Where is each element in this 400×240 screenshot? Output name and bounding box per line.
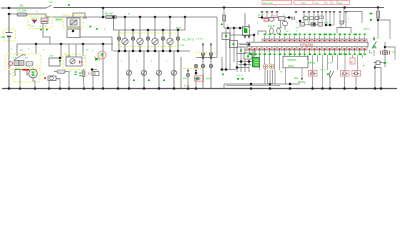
node 133,51	[132, 50, 135, 53]
module box U2 under IC	[285, 55, 305, 56]
cap C5 ellipse vertical	[270, 28, 274, 34]
node 92,69	[91, 68, 94, 71]
grid y28	[224, 27, 246, 29]
node 163,30	[162, 29, 165, 32]
node 61,44	[60, 43, 63, 46]
transistor Q1	[126, 51, 131, 88]
cap C4 ellipse	[303, 16, 308, 20]
resistor R5 vertical	[82, 71, 85, 77]
red bar motor	[23, 69, 30, 71]
connector X2	[92, 72, 99, 76]
wire top bus left	[1, 7, 46, 9]
contact block A	[14, 61, 19, 66]
node 148,51	[147, 50, 150, 53]
node 185,17	[184, 16, 187, 19]
node 344,88	[343, 87, 346, 90]
lamp red H1	[9, 62, 13, 66]
wire IC left entry	[240, 43, 247, 45]
svg-text:x x x: x x x	[237, 74, 243, 77]
node loop 345	[343, 6, 346, 9]
wire second bus left y14	[9, 14, 217, 17]
label right X5	[384, 62, 387, 64]
wire LED cluster down	[43, 24, 50, 45]
wires from IC bottom pins	[250, 50, 370, 53]
node 178,30	[177, 29, 180, 32]
node 170,17	[169, 16, 172, 19]
node 385,47	[384, 46, 387, 49]
component X5	[374, 62, 383, 64]
opto box 3	[237, 47, 245, 54]
wires into IC top pins	[265, 36, 365, 39]
resistor R2	[106, 16, 117, 19]
node 103,17	[102, 16, 105, 19]
battery B1	[6, 14, 13, 88]
node battery top	[8, 7, 11, 10]
svg-text:→: →	[169, 71, 172, 75]
node 300,21	[299, 20, 302, 23]
node 133,30	[132, 29, 135, 32]
contact X3 red highlight	[195, 76, 204, 81]
green marks 237,79	[237, 78, 239, 80]
bead L4	[161, 30, 164, 51]
svg-text:Rx 4k7: Rx 4k7	[105, 11, 114, 15]
wire y17.5 cluster	[258, 17, 292, 19]
node 178,51	[177, 50, 180, 53]
svg-text:CPU234: CPU234	[300, 43, 313, 47]
svg-text:x x x x: x x x x	[196, 38, 204, 41]
red pad circle 2	[269, 64, 274, 69]
resistor R9	[377, 8, 379, 23]
verticals to y84	[265, 68, 275, 84]
wire y26.5	[305, 23, 319, 25]
node 237,67	[236, 66, 239, 69]
node 270,88	[269, 87, 272, 90]
green marks x75-81	[75, 72, 82, 76]
wire y44 rail	[17, 44, 113, 56]
transistor Q2	[141, 51, 146, 88]
node 93,88	[92, 87, 95, 90]
contact block B	[19, 61, 24, 66]
chain yellow dashes	[195, 52, 218, 54]
node 84,88	[83, 87, 86, 90]
fuse F2	[57, 70, 65, 73]
node 60,88	[59, 87, 62, 90]
IC U1 CPU234 body	[247, 42, 368, 47]
node 148,30	[147, 29, 150, 32]
node 290,84	[289, 83, 292, 86]
arrow end 302	[301, 78, 303, 80]
diode D1	[32, 19, 37, 21]
svg-text:xx: xx	[315, 1, 319, 5]
node 129,88	[128, 87, 131, 90]
cap C2 ellipse	[269, 17, 274, 21]
node 163,51	[162, 50, 165, 53]
wire hook 258	[258, 31, 266, 35]
meter M3	[152, 17, 158, 51]
switch S1	[46, 5, 52, 8]
label SW4 top	[373, 38, 375, 40]
transistor circle 285	[283, 21, 288, 26]
box 315 y17	[315, 17, 319, 20]
node 222,69	[221, 68, 224, 71]
green dot 222,24	[221, 24, 223, 26]
red box F under IC	[350, 58, 355, 64]
battery B1 highlight	[4, 29, 16, 41]
node 49,88	[48, 87, 51, 90]
lamp group highlight	[118, 33, 178, 47]
cap C6 ellipse vertical	[277, 28, 281, 34]
node 60,58	[59, 57, 62, 60]
opto box 4	[244, 53, 252, 59]
relay K2 highlight	[63, 54, 86, 70]
contact K4 red highlight	[341, 71, 350, 77]
wires cluster 326-334	[326, 24, 345, 28]
svg-text:+5V x: +5V x	[363, 27, 370, 31]
svg-text:xxx: xxx	[338, 1, 343, 5]
opto box 2	[230, 41, 238, 48]
wire top bus right	[54, 7, 385, 9]
sensor S2 red	[45, 77, 46, 79]
wire x103 down	[102, 44, 104, 88]
node 170,51	[169, 50, 172, 53]
wire x36 down	[35, 44, 37, 54]
bead L3	[146, 30, 149, 51]
svg-text:→: →	[139, 71, 142, 75]
wire S2 down	[49, 79, 60, 89]
svg-text:xx Lx: xx Lx	[184, 85, 190, 88]
node 378 top	[377, 6, 380, 9]
wire relay right to lamps	[80, 27, 112, 51]
pin labels above IC	[264, 34, 366, 36]
node 174,88	[173, 87, 176, 90]
green dot in X3	[197, 78, 199, 80]
svg-text:PGA: PGA	[288, 64, 294, 68]
node 330,88	[329, 87, 332, 90]
transistor Q4	[171, 51, 176, 88]
node 375,88	[374, 87, 377, 90]
transistor Q5 box	[41, 18, 48, 24]
pink indicator P1	[98, 51, 106, 59]
bottom bus	[2, 88, 397, 90]
arrow part x245	[243, 13, 251, 38]
node 234,28	[233, 27, 236, 30]
svg-text:SCL: SCL	[294, 77, 299, 80]
svg-text:F1 10A: F1 10A	[18, 9, 27, 13]
pin labels below IC	[249, 53, 366, 55]
node 289,17	[288, 16, 291, 19]
contact K5 red highlight	[352, 71, 361, 77]
svg-text:xxx xxx: xxx xxx	[263, 1, 273, 5]
resistor R8 vertical	[223, 8, 225, 29]
meter M1	[122, 17, 128, 51]
node 356,88	[355, 87, 358, 90]
red pad circles under IC	[263, 64, 268, 69]
node 203,57	[202, 56, 205, 59]
node 322,88	[321, 87, 324, 90]
node 290,88	[289, 87, 292, 90]
divider wire x181	[180, 57, 182, 88]
node 103,44	[102, 43, 105, 46]
node 69,88	[68, 87, 71, 90]
node 253,44	[252, 43, 255, 46]
node R2 top	[102, 7, 105, 10]
bead L2	[131, 30, 134, 51]
relay K2 body	[66, 57, 82, 66]
wires net boxes down	[262, 12, 346, 28]
svg-text:30: 30	[88, 72, 92, 76]
node 245,64	[244, 63, 247, 66]
fuse F1	[17, 13, 27, 16]
node 73,31	[72, 30, 75, 33]
crystal Y2	[381, 51, 390, 55]
relay K1 highlight	[63, 15, 83, 29]
wire x61 down	[60, 44, 62, 58]
bead L5	[176, 30, 179, 51]
lever SW4	[372, 42, 377, 49]
diode red K2	[79, 61, 83, 64]
marks SW4	[373, 46, 377, 48]
node 241,61	[240, 60, 243, 63]
node 381,88	[380, 87, 383, 90]
node 125,51	[124, 50, 127, 53]
node 326,25	[325, 24, 328, 27]
node 254,35	[253, 34, 256, 37]
part box 341	[340, 21, 344, 24]
svg-text:B+: B+	[20, 4, 24, 8]
svg-text:5V8: 5V8	[176, 26, 181, 30]
contact K3 red highlight	[309, 71, 318, 77]
wire 390-395 down	[390, 26, 395, 60]
box 310 y17	[310, 17, 314, 20]
node col 224	[223, 6, 226, 9]
wire y69	[220, 69, 236, 71]
wire relay top hat	[73, 13, 87, 18]
verticals under IC right	[302, 55, 363, 89]
mesh below staircase	[237, 48, 253, 73]
small cluster x319-345	[319, 16, 324, 19]
node 228,28	[227, 27, 230, 30]
meter M4	[167, 17, 173, 51]
svg-text:→: →	[154, 71, 157, 75]
bus y51	[113, 50, 190, 52]
node 196,73	[195, 72, 198, 75]
sensor S2 body	[48, 76, 56, 81]
svg-text:→: →	[124, 71, 127, 75]
node 378,20	[377, 19, 380, 22]
node 9,88	[8, 87, 11, 90]
svg-text:F: F	[351, 60, 353, 64]
svg-text:wf/syn: wf/syn	[308, 62, 316, 65]
motor frame	[15, 70, 27, 77]
wire R5	[83, 69, 86, 89]
node 251,88	[250, 87, 253, 90]
LED cluster highlight	[28, 16, 52, 29]
box 318	[318, 23, 323, 27]
chain column 211	[209, 43, 212, 88]
node 270,84	[269, 83, 272, 86]
probe arrow 196	[195, 69, 197, 77]
node 251,84	[250, 83, 253, 86]
green mark s3	[327, 74, 329, 76]
green dot 371,20	[370, 19, 372, 21]
bead L1	[117, 30, 120, 51]
IC U1 bottom pin numbers	[249, 48, 366, 50]
node 103,88	[102, 87, 105, 90]
svg-text:= + x: = + x	[320, 68, 326, 71]
svg-text:4x4 B: 4x4 B	[268, 25, 275, 28]
wire X5 down legs	[375, 65, 381, 89]
charger cluster highlight	[5, 54, 41, 70]
transistor Q3	[156, 51, 161, 88]
svg-text:A=1: A=1	[206, 77, 211, 81]
node 155,17	[154, 16, 157, 19]
motor M	[29, 69, 38, 78]
node 159,88	[158, 87, 161, 90]
opto out wires	[230, 35, 255, 56]
node 140,17	[139, 16, 142, 19]
wire 385 right branch	[385, 47, 395, 56]
label 60,60 green dot	[59, 60, 61, 62]
net label band top right	[262, 1, 292, 5]
cap C3 bars	[292, 17, 294, 21]
node 240,28	[239, 27, 242, 30]
node 312,88	[311, 87, 314, 90]
node 249,61	[248, 60, 251, 63]
crystal Y1	[311, 23, 316, 27]
node 118,88	[117, 87, 120, 90]
diode x97	[96, 58, 99, 61]
sensor group right of Q4 highlight	[183, 68, 203, 70]
node 188,88	[187, 87, 190, 90]
svg-text:12V: 12V	[1, 35, 6, 39]
node 155,51	[154, 50, 157, 53]
IC U1 bottom pin row	[247, 47, 367, 50]
bead 196,66	[194, 64, 197, 67]
chain column 203	[201, 43, 204, 88]
node 314,24	[313, 23, 316, 26]
node 140,51	[139, 50, 142, 53]
IC U1 top pin row	[262, 39, 367, 42]
node x9 y14	[8, 13, 11, 16]
LED module green box	[253, 58, 260, 67]
bead on 188	[186, 73, 189, 76]
node 144,88	[143, 87, 146, 90]
verticals pins to pads	[260, 55, 280, 70]
svg-text:x xx: x xx	[328, 62, 333, 65]
node 119,51	[118, 50, 121, 53]
wire 378 down to IC	[377, 22, 379, 39]
wire x253-254 down	[253, 35, 255, 57]
node 251,44	[248, 43, 251, 46]
wire X2 down	[92, 70, 97, 89]
wire x103 top drop	[102, 8, 104, 17]
node 125,17	[124, 16, 127, 19]
wire y57	[196, 17, 217, 58]
wire 378 to 390	[378, 20, 390, 26]
node 330,25	[329, 24, 332, 27]
fuse F25A red box	[264, 19, 269, 22]
svg-text:MAX8: MAX8	[288, 58, 297, 62]
svg-text:mL 1RTU: mL 1RTU	[182, 38, 194, 42]
net band separators	[313, 1, 337, 5]
svg-text:XT1: XT1	[305, 20, 310, 23]
opto box 1	[222, 33, 230, 40]
probe arrow 188	[187, 69, 189, 89]
svg-text:MAX: MAX	[56, 17, 63, 21]
node 211,57	[210, 56, 213, 59]
switch S3	[329, 71, 334, 79]
wire loop 344-362	[344, 8, 362, 24]
node 36,44	[35, 43, 38, 46]
wire y84 rail	[224, 84, 300, 89]
meter M2	[137, 17, 143, 51]
wire U2 legs	[286, 68, 303, 84]
wire F2	[54, 72, 69, 89]
svg-text:xxx: xxx	[301, 1, 306, 5]
node 20,88	[19, 87, 22, 90]
wire K2 tops	[69, 44, 76, 57]
wire hook 337-351	[337, 28, 351, 34]
node 226,69	[225, 68, 228, 71]
relay K1 coil	[67, 18, 80, 27]
node 35,88	[34, 87, 37, 90]
box 300	[300, 23, 305, 27]
wire motor down	[20, 76, 35, 89]
node 83,44	[82, 43, 85, 46]
motor cluster highlight	[13, 68, 40, 82]
long verticals 222-234	[222, 28, 234, 70]
wire x374	[373, 36, 375, 56]
wire x83 down	[82, 44, 84, 56]
switch arm charger	[14, 55, 26, 60]
green arrows 370	[369, 13, 373, 15]
resistor block C	[26, 62, 33, 67]
wire x385 vertical	[384, 42, 386, 67]
lamp bus y30	[113, 17, 185, 30]
relay K1 contacts box	[67, 29, 80, 38]
node 375,67	[374, 66, 377, 69]
IC U1 top pin numbers	[264, 40, 366, 42]
node 196,88	[195, 87, 198, 90]
node 262,17	[261, 16, 264, 19]
box 278	[279, 17, 286, 21]
wire x118 column	[117, 51, 119, 88]
